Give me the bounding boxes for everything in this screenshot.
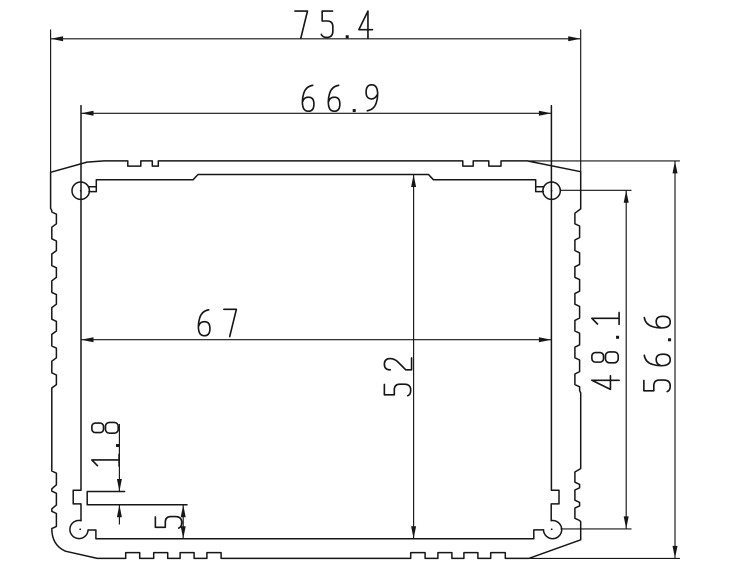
text 75.4	[295, 11, 373, 38]
inner floor with ledges	[88, 530, 543, 539]
inner right wall with tab	[551, 106, 559, 521]
dim 75.4 line and extensions	[51, 30, 581, 173]
bottom-right screw boss arc	[544, 520, 562, 538]
text 67	[198, 309, 236, 336]
outer profile of extrusion body	[51, 161, 581, 559]
67 arrows	[81, 337, 551, 342]
75.4 arrows	[51, 36, 581, 41]
text 48.1 (rotated)	[592, 312, 619, 389]
dim 1.8 line	[118, 424, 120, 525]
text 5 (rotated)	[155, 517, 181, 529]
56.6 arrows	[673, 161, 678, 559]
52 arrows	[411, 175, 416, 539]
48.1 arrows	[624, 190, 629, 529]
dim 5 line	[182, 505, 184, 539]
bottom-left screw boss arc	[70, 520, 88, 538]
text 56.6 (rotated)	[644, 316, 671, 391]
dim 52 line	[413, 175, 415, 539]
text 66.9	[302, 85, 377, 112]
dim 67 line	[81, 339, 551, 341]
dim 56.6 line and extensions	[527, 161, 680, 559]
5 arrows	[181, 505, 186, 539]
1.8 arrows	[117, 479, 122, 517]
dim 48.1 line and extensions	[560, 190, 632, 529]
top-right screw boss	[543, 182, 560, 199]
boss center marks	[80, 190, 82, 192]
top-left screw boss	[72, 182, 89, 199]
text 52 (rotated)	[384, 358, 411, 396]
PCB shelf slot lines	[87, 492, 187, 505]
dim 66.9 line	[81, 112, 551, 114]
66.9 arrows	[81, 111, 551, 116]
inner ceiling with corner notches	[88, 175, 544, 192]
text 1.8 (rotated)	[92, 422, 119, 466]
inner left wall with tab	[73, 106, 81, 521]
